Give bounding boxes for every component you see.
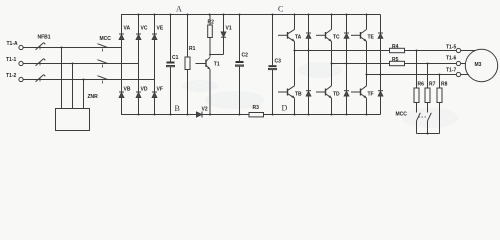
bus DC plus — [122, 15, 381, 48]
svg-text:VC: VC — [141, 26, 148, 32]
transistor TE — [351, 34, 361, 36]
diode VD — [136, 91, 141, 93]
svg-text:VD: VD — [141, 87, 148, 93]
wire line2 to NFB1 — [23, 63, 101, 65]
breaker NFB1 pole3 — [36, 75, 44, 82]
wire line1 to NFB1 — [23, 47, 101, 49]
wire bus R3 to D section — [264, 114, 381, 116]
diode DE — [380, 15, 382, 34]
svg-text:R8: R8 — [441, 82, 448, 88]
wire ZNR tap2 — [72, 64, 74, 109]
diode VE — [154, 15, 156, 35]
svg-text:T1-A: T1-A — [7, 41, 19, 47]
svg-text:R2: R2 — [208, 20, 215, 26]
wire phase V — [332, 63, 457, 65]
motor M3 — [465, 49, 497, 81]
svg-text:R1: R1 — [189, 46, 196, 52]
wire phase W — [367, 74, 457, 76]
svg-text:A: A — [176, 5, 182, 14]
diode DC2 — [346, 15, 348, 34]
faint scan smudges — [182, 62, 458, 128]
svg-text:D: D — [282, 104, 288, 113]
svg-text:T1-7: T1-7 — [446, 68, 457, 74]
svg-text:TB: TB — [295, 92, 302, 98]
wire brake bottom — [417, 133, 440, 135]
transistor TB — [278, 91, 288, 93]
resistor R7 — [425, 88, 430, 103]
svg-text:TA: TA — [295, 35, 302, 41]
wire bus V2 to R3 — [202, 114, 249, 116]
diode DD — [346, 64, 348, 91]
contactor MCC pole1 — [98, 44, 108, 48]
svg-text:VE: VE — [157, 26, 164, 32]
bus DC minus left — [122, 48, 197, 115]
breaker NFB1 pole1 — [36, 43, 44, 50]
resistor R2 — [209, 15, 211, 26]
wire ZNR tap1 — [61, 48, 63, 109]
wire line2 MCC to rectifier — [101, 63, 139, 65]
transistor TD — [316, 91, 326, 93]
svg-text:B: B — [175, 104, 180, 113]
diode VC — [138, 15, 140, 35]
wire brake tap3 — [439, 75, 441, 89]
contactor MCC pole3 — [98, 76, 108, 80]
wire brake tap1 — [416, 51, 418, 89]
capacitor C3 — [272, 15, 274, 66]
terminal T1-1 — [19, 61, 23, 65]
svg-text:C3: C3 — [275, 59, 282, 65]
svg-text:V2: V2 — [202, 107, 208, 113]
contactor MCC brake linkage — [419, 116, 427, 118]
terminal T1-A — [19, 45, 23, 49]
svg-text:V1: V1 — [226, 26, 232, 32]
capacitor C1 — [170, 15, 172, 62]
svg-text:TF: TF — [368, 92, 374, 98]
svg-text:T1-2: T1-2 — [6, 73, 17, 79]
transistor TF — [351, 91, 361, 93]
svg-text:VF: VF — [157, 87, 163, 93]
capacitor C2 — [239, 15, 241, 62]
svg-text:VB: VB — [124, 87, 131, 93]
svg-text:T1-5: T1-5 — [446, 45, 457, 51]
svg-text:MCC: MCC — [100, 36, 112, 42]
svg-text:C: C — [278, 5, 283, 14]
diode VA — [121, 15, 123, 35]
svg-text:R6: R6 — [418, 82, 425, 88]
wire line1 MCC to rectifier — [101, 47, 122, 49]
resistor R3 — [249, 113, 264, 117]
svg-text:NFB1: NFB1 — [38, 35, 51, 41]
wire motor V — [461, 63, 466, 65]
svg-text:ZNR: ZNR — [88, 94, 99, 100]
svg-text:TE: TE — [368, 35, 375, 41]
wire line3 to NFB1 — [23, 79, 101, 81]
svg-text:C1: C1 — [172, 55, 179, 61]
wire phase U — [295, 50, 457, 52]
terminal T1-5 — [456, 48, 460, 52]
diode VF — [152, 91, 157, 93]
resistor R8 — [437, 88, 442, 103]
svg-text:TC: TC — [333, 35, 340, 41]
svg-text:C2: C2 — [242, 53, 249, 59]
transistor TC — [316, 34, 326, 36]
terminal T1-7 — [456, 72, 460, 76]
svg-text:R4: R4 — [392, 44, 399, 50]
svg-text:TD: TD — [333, 92, 340, 98]
wire motor U — [461, 50, 476, 52]
svg-text:R3: R3 — [253, 105, 260, 111]
diode VB — [119, 91, 124, 93]
svg-text:R7: R7 — [429, 82, 436, 88]
transistor T1 — [205, 60, 207, 68]
svg-text:R5: R5 — [392, 57, 399, 63]
wire ZNR tap3 — [83, 80, 85, 109]
diode DF — [380, 75, 382, 91]
diode V1 — [223, 15, 225, 33]
diode V2 — [201, 112, 203, 118]
breaker NFB1 pole2 — [36, 59, 44, 66]
svg-text:T1: T1 — [214, 62, 220, 68]
contactor MCC brake pole2 — [428, 113, 432, 121]
resistor R4 — [390, 48, 405, 52]
svg-text:MCC: MCC — [396, 112, 408, 118]
terminal T1-2 — [19, 77, 23, 81]
wire motor W — [461, 74, 469, 76]
wire line3 MCC to rectifier — [101, 79, 155, 81]
varistor ZNR box — [56, 109, 90, 131]
svg-text:T1-6: T1-6 — [446, 56, 457, 62]
terminal T1-6 — [456, 61, 460, 65]
contactor MCC brake pole1 — [417, 113, 421, 121]
resistor R6 — [414, 88, 419, 103]
wire R2/V1 join — [210, 54, 224, 56]
svg-text:T1-1: T1-1 — [6, 57, 17, 63]
resistor R5 — [390, 61, 405, 65]
svg-text:M3: M3 — [475, 62, 482, 68]
wire brake tap2 — [427, 64, 429, 89]
diode DA — [308, 15, 310, 34]
transistor TA — [278, 34, 288, 36]
svg-text:VA: VA — [124, 26, 131, 32]
contactor MCC pole2 — [98, 60, 108, 64]
resistor R1 — [187, 15, 189, 58]
diode DB — [308, 51, 310, 91]
